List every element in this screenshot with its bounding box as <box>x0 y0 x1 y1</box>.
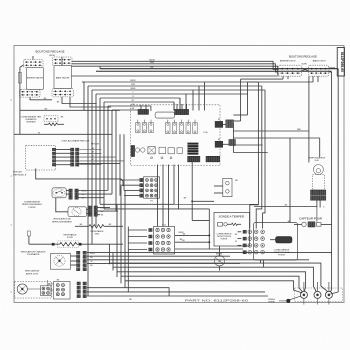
svg-text:COMMUTATEUR: COMMUTATEUR <box>217 232 232 235</box>
svg-text:SURFACE: SURFACE <box>26 120 36 123</box>
svg-text:GRIL: GRIL <box>95 234 101 236</box>
resistance four <box>28 231 124 248</box>
svg-text:BU/W: BU/W <box>49 55 54 57</box>
wires right edge into circle3 <box>261 260 339 294</box>
svg-text:COMMUTATEUR: COMMUTATEUR <box>24 201 41 204</box>
wires into P1 <box>79 163 140 195</box>
svg-text:PORTE: PORTE <box>28 207 36 209</box>
module pins <box>52 148 55 166</box>
wire mid run <box>72 75 279 77</box>
wire switch drops <box>30 56 111 107</box>
svg-text:VENTILATEUR CHALEUR: VENTILATEUR CHALEUR <box>21 250 46 253</box>
label COMMUTATEUR REFROIDISSEMENT PORTE <box>22 201 43 209</box>
wires module to connector <box>56 150 71 165</box>
switch temoin surface <box>44 116 64 122</box>
door lock actuator <box>270 237 292 244</box>
probe symbol <box>218 223 242 227</box>
element ARRIERE GAUCHE box <box>27 68 44 90</box>
connector pins ignition return <box>71 148 125 166</box>
svg-text:RED: RED <box>297 129 302 131</box>
svg-text:W: W <box>38 132 40 134</box>
svg-text:ARRIERE GAUCHE: ARRIERE GAUCHE <box>27 77 44 80</box>
wire fan drops into board <box>82 82 205 111</box>
wires inter connections <box>219 246 221 271</box>
svg-text:TERRE: TERRE <box>268 302 275 304</box>
svg-text:VENTILATEUR DE: VENTILATEUR DE <box>53 218 71 221</box>
switch arriere gauche (top) <box>24 60 44 68</box>
label VENTILATEUR CHALEUR TOURNANTE <box>21 250 46 256</box>
wire W from left <box>14 110 112 134</box>
wire bottom staircase <box>109 263 327 293</box>
wire label BU/W <box>49 55 54 57</box>
relay box center <box>155 112 175 118</box>
wire right verticals long (C) <box>263 90 265 229</box>
svg-text:8112P268-60: 8112P268-60 <box>340 52 344 72</box>
module d'etincelle dashed box <box>13 146 56 177</box>
wires cooling fan <box>87 208 119 215</box>
svg-text:K2: K2 <box>218 139 220 141</box>
label COMMUTATEUR TEMOIN ELEMENTS SURFACE <box>21 115 42 123</box>
wire BK lower-left horizontal <box>20 108 120 110</box>
svg-text:DISP. ALLUMAGE RETOUR: DISP. ALLUMAGE RETOUR <box>62 139 90 142</box>
commutateur refroidissement symbol <box>52 188 66 198</box>
svg-text:BU/W: BU/W <box>149 59 154 61</box>
ventilateur refroidissement motor <box>68 207 87 217</box>
inter switch <box>214 253 224 266</box>
label BOUTONS REGLAGE (left) <box>36 50 65 54</box>
svg-text:W: W <box>91 261 93 263</box>
labels droit <box>280 59 327 65</box>
svg-text:W: W <box>235 241 237 243</box>
wire BU/W top run <box>72 59 279 69</box>
aux component right of board 2 <box>229 140 236 146</box>
wire horizontals mid <box>100 201 258 249</box>
wire bundle board-to-right <box>233 123 319 163</box>
interrupteur lumiere four <box>214 178 238 196</box>
wires between right switches <box>302 68 336 72</box>
terminal block dashed outline <box>295 288 343 302</box>
svg-text:BU/W: BU/W <box>131 80 136 82</box>
connector pins bottom-left <box>77 282 86 298</box>
connector pins convection fan <box>77 251 96 270</box>
label BOUTONS REGLAGE (right) <box>289 54 317 58</box>
box COMMUTATEUR VERROUILLAGE PORTE <box>254 221 298 260</box>
switch avant droit <box>309 65 329 76</box>
svg-text:AVANT GAUCHE: AVANT GAUCHE <box>56 77 70 80</box>
connector P7 <box>175 104 189 115</box>
svg-text:BK/W: BK/W <box>131 88 136 90</box>
relay contacts group B <box>166 120 209 135</box>
svg-text:BU/W: BU/W <box>90 253 95 255</box>
ventilateur aspir assembly <box>15 280 52 298</box>
svg-text:ARRIERE DROIT: ARRIERE DROIT <box>280 59 296 62</box>
svg-text:REFROIDISSEMENT: REFROIDISSEMENT <box>22 204 43 206</box>
wire verticals below board <box>158 162 194 227</box>
resistance temoin (lamp resistor) <box>44 123 64 126</box>
wires into C12 <box>128 230 183 250</box>
svg-text:MODULE: MODULE <box>13 172 23 174</box>
connector pins cooling fan <box>88 206 105 217</box>
connector P6 <box>138 105 149 114</box>
aux component right of board <box>226 120 234 128</box>
wire big loop <box>36 169 123 187</box>
relay K2 <box>215 139 233 147</box>
switch avant gauche (top) <box>53 57 73 66</box>
transformer T1 <box>188 143 199 155</box>
wire right verticals long (B) <box>256 86 262 229</box>
resistance gril <box>75 224 123 236</box>
ground symbol <box>268 296 301 304</box>
wires cooling switch <box>56 191 112 212</box>
ventilateur chaleur motor box <box>51 254 71 270</box>
svg-text:VENTILATEUR: VENTILATEUR <box>25 270 40 273</box>
wire fan upper extensions <box>174 98 180 111</box>
fuse box left <box>18 73 21 84</box>
wires door lock top <box>254 138 317 223</box>
wire third run <box>72 66 279 74</box>
svg-text:DLB: DLB <box>204 132 209 134</box>
svg-text:R/W: R/W <box>131 84 135 86</box>
border frame <box>14 46 344 303</box>
svg-text:BOUTONS REGLAGE: BOUTONS REGLAGE <box>289 54 317 58</box>
relay K1 <box>215 119 233 127</box>
frame tick marks <box>11 100 13 292</box>
wire right verticals long (A) <box>250 82 259 229</box>
svg-text:SONDE A TEMPER.: SONDE A TEMPER. <box>219 216 245 219</box>
temporisateur (door lock motor) <box>308 156 326 208</box>
capteur four <box>294 208 332 228</box>
label VENTILATEUR ASPIR <box>25 270 40 276</box>
connector pins cooling switch <box>69 189 87 200</box>
svg-text:COMMUTATEUR: COMMUTATEUR <box>274 248 290 251</box>
wire vertical bundle lower <box>109 110 128 292</box>
wire fan labels <box>131 80 136 110</box>
svg-text:K1: K1 <box>218 119 220 121</box>
wire right edge verticals <box>332 69 339 292</box>
box SONDE A TEMPERATURE <box>214 213 250 247</box>
wires C12 to door lock <box>175 233 243 249</box>
svg-text:D'ETINCELLE: D'ETINCELLE <box>13 174 27 176</box>
svg-text:PORTE: PORTE <box>278 255 286 257</box>
relay contacts group A <box>136 120 154 133</box>
part number label box (vertical, right edge) <box>337 48 344 77</box>
part number text <box>185 298 249 302</box>
svg-text:RESISTANCE: RESISTANCE <box>63 234 77 237</box>
wire left drop <box>20 65 24 110</box>
terminal block circles <box>300 282 332 305</box>
wires below right switches <box>233 76 318 131</box>
connector P1 <box>140 177 160 203</box>
svg-text:FOUR: FOUR <box>67 237 73 239</box>
switch arriere droit <box>279 65 302 76</box>
wire R/W second run <box>72 62 279 72</box>
svg-text:RETOUR: RETOUR <box>91 143 100 145</box>
element AVANT GAUCHE box <box>54 66 72 89</box>
svg-text:CAPTEUR FOUR: CAPTEUR FOUR <box>299 218 322 221</box>
door lock connector grid <box>235 230 265 254</box>
wire heavy pair upper <box>96 66 338 71</box>
wire bottom bundle A <box>87 253 332 264</box>
connector block CN bottom <box>48 279 70 299</box>
label DISP. ALLUMAGE RETOUR <box>62 139 100 145</box>
control board dashed outline <box>131 105 221 166</box>
svg-text:ASPIR 2VTS: ASPIR 2VTS <box>26 272 39 275</box>
wire bottom bundle B <box>48 284 268 301</box>
svg-text:AVANT DROIT: AVANT DROIT <box>313 59 327 62</box>
switch arriere gauche (bottom) <box>20 89 41 97</box>
svg-text:DLB: DLB <box>315 160 320 162</box>
svg-text:BOUTONS REGLAGE: BOUTONS REGLAGE <box>36 50 65 54</box>
board bottom connectors <box>188 156 220 162</box>
connector C12 <box>149 225 175 254</box>
switch avant gauche (bottom) <box>52 89 74 97</box>
svg-text:PART NO. 8112P268-60: PART NO. 8112P268-60 <box>185 298 249 302</box>
svg-text:PORTE: PORTE <box>221 239 228 241</box>
svg-text:RESISTANCE: RESISTANCE <box>90 230 104 233</box>
probe box inner text <box>217 232 232 240</box>
svg-text:TOURNANTE: TOURNANTE <box>27 253 41 256</box>
board bottom row components <box>131 146 183 159</box>
label VENTILATEUR DE REFROIDISSEMENT <box>52 218 73 224</box>
svg-text:REFROIDISSEMENT: REFROIDISSEMENT <box>52 221 73 223</box>
wire fan bundle (left) <box>84 82 265 296</box>
svg-text:BU/W: BU/W <box>302 63 307 65</box>
wires convection fan <box>71 256 77 265</box>
svg-text:R/W: R/W <box>150 62 154 64</box>
